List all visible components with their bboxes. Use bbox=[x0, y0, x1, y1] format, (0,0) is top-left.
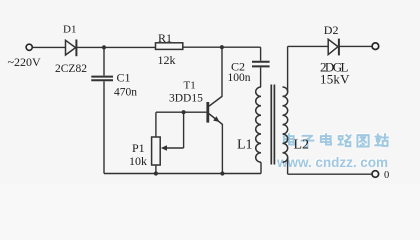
svg-text:0: 0 bbox=[384, 170, 389, 181]
svg-text:15kV: 15kV bbox=[320, 71, 350, 86]
svg-text:P1: P1 bbox=[132, 141, 145, 155]
svg-text:D2: D2 bbox=[324, 23, 339, 37]
svg-text:2CZ82: 2CZ82 bbox=[55, 63, 87, 75]
svg-text:12k: 12k bbox=[158, 53, 176, 67]
svg-text:10k: 10k bbox=[129, 154, 147, 168]
svg-text:C1: C1 bbox=[117, 71, 131, 85]
svg-text:L1: L1 bbox=[237, 137, 253, 152]
svg-text:470n: 470n bbox=[114, 87, 137, 99]
svg-text:D1: D1 bbox=[63, 23, 76, 35]
svg-text:L2: L2 bbox=[294, 137, 310, 152]
svg-text:R1: R1 bbox=[158, 31, 172, 45]
svg-text:www. cndzz. com: www. cndzz. com bbox=[276, 154, 388, 170]
svg-text:~220V: ~220V bbox=[8, 55, 41, 69]
svg-text:100n: 100n bbox=[228, 72, 251, 84]
svg-text:3DD15: 3DD15 bbox=[169, 92, 203, 104]
svg-text:T1: T1 bbox=[184, 79, 196, 91]
